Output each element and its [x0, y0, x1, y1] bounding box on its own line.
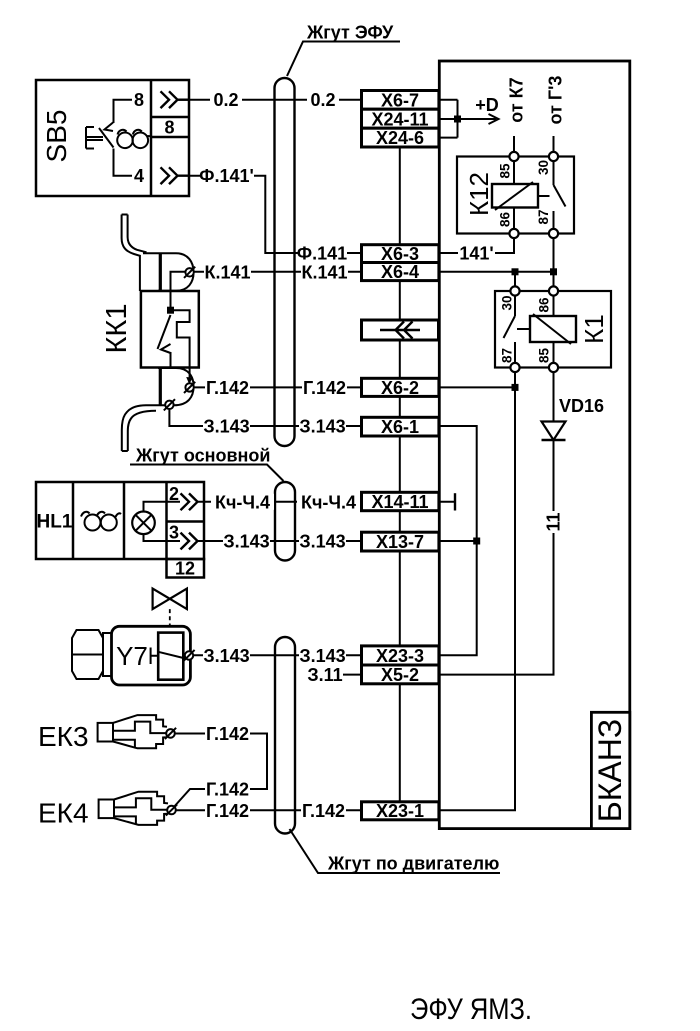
diode VD16: [542, 422, 566, 441]
svg-text:Х24-6: Х24-6: [376, 128, 424, 148]
svg-text:З.143: З.143: [223, 532, 269, 552]
label Г.142 (ЕК4 after harness): [301, 801, 346, 821]
label 0.2 (before harness): [210, 90, 242, 110]
valve dashed stem: [169, 609, 171, 627]
relay K1 box: [495, 291, 611, 368]
SB5 blade contact arrow: [105, 123, 114, 132]
K12 pin circle 30: [549, 152, 558, 161]
junction dot +D: [454, 116, 461, 123]
КК1 switch blade: [158, 315, 171, 349]
svg-text:30: 30: [500, 295, 515, 310]
K12 coil lead pin 85: [513, 160, 515, 184]
SB5 switch blade: [99, 128, 114, 148]
SB5 wire pin 8: [114, 100, 133, 123]
connector X13-7: [362, 532, 439, 552]
svg-text:8: 8: [134, 90, 144, 110]
КК1 upper terminal lug: [143, 253, 194, 290]
svg-text:от К7: от К7: [507, 77, 527, 122]
svg-text:0.2: 0.2: [310, 90, 335, 110]
arrow +D: [458, 114, 499, 124]
label З.11: [307, 665, 343, 685]
wire K1 pin 87 down through X6-2 row to X23-1: [438, 372, 515, 810]
svg-text:Х6-3: Х6-3: [381, 244, 419, 264]
label К.141 (after harness): [301, 262, 348, 282]
K1 contact pin 87 lead: [514, 342, 516, 363]
label З.143 (after harness): [299, 417, 346, 437]
wire Г.142 from ЕК4 to X23-1: [176, 809, 362, 811]
K1 coil lead pin 85: [553, 342, 555, 363]
svg-text:Г.142: Г.142: [206, 378, 249, 398]
Y7 solenoid valve body: [112, 626, 191, 685]
svg-text:3: 3: [169, 523, 179, 543]
SB5 chevron pin 4: [161, 167, 190, 184]
indicator HL1 box: [36, 482, 204, 559]
svg-text:Кч-Ч.4: Кч-Ч.4: [215, 492, 270, 512]
svg-text:К1: К1: [579, 314, 609, 344]
svg-text:Г.142: Г.142: [302, 801, 345, 821]
БКАНЗ name box: [591, 712, 629, 828]
wire stub З.11 to X5-2: [341, 674, 362, 676]
K1 pin circle 86: [549, 286, 558, 295]
Y7 armature tick: [151, 648, 159, 665]
svg-text:Х6-4: Х6-4: [381, 262, 419, 282]
K1 pin circle 85: [549, 363, 558, 372]
svg-text:Х24-11: Х24-11: [371, 110, 428, 130]
connector X6-1: [362, 417, 439, 437]
svg-text:87: 87: [536, 209, 551, 224]
wire Г.142 from ЕК3: [173, 734, 268, 809]
svg-text:К12: К12: [464, 172, 494, 216]
label З.143 (Y7 after harness): [299, 646, 346, 666]
wire X6-2 row: [439, 386, 515, 388]
КК1 lower mounting bracket: [122, 405, 161, 451]
svg-text:HL1: HL1: [37, 512, 73, 533]
svg-text:ЕК3: ЕК3: [38, 721, 89, 752]
svg-text:87: 87: [500, 348, 515, 363]
relay K12 box: [457, 157, 574, 234]
ЕК3 terminal bolt: [165, 728, 176, 739]
label Кч-Ч.4 (before harness): [211, 492, 274, 512]
label Г.142 (ЕК3-ЕК4 link): [205, 780, 250, 800]
svg-text:З.11: З.11: [307, 665, 342, 685]
svg-text:2: 2: [169, 484, 179, 504]
label Г.142 (before harness): [205, 378, 250, 398]
wire stub X24-6 right: [439, 137, 458, 139]
lead X6-4 to K1 pin 86: [553, 272, 555, 287]
КК1 lower terminal lug: [158, 368, 194, 405]
label З.143 (HL1 after harness): [299, 532, 346, 552]
label З.143 (before harness): [203, 417, 250, 437]
wire Кч-Ч.4 from HL1 to X14-11: [198, 501, 362, 503]
svg-text:Г.142: Г.142: [206, 780, 249, 800]
svg-text:Жгут ЭФУ: Жгут ЭФУ: [306, 23, 394, 43]
harness oval Жгут ЭФУ: [275, 78, 295, 446]
svg-text:Х13-7: Х13-7: [376, 532, 424, 552]
valve symbol above Y7: [153, 589, 187, 610]
vertical harness column line through connectors: [399, 147, 401, 802]
svg-text:Кч-Ч.4: Кч-Ч.4: [301, 492, 356, 512]
svg-text:Х14-11: Х14-11: [371, 492, 428, 512]
svg-text:З.143: З.143: [299, 532, 345, 552]
SB5 coil: [117, 130, 151, 148]
svg-text:К.141: К.141: [301, 262, 347, 282]
svg-text:0.2: 0.2: [213, 90, 238, 110]
Y7 coil: [158, 633, 186, 680]
label Г.142 (after harness): [302, 378, 347, 398]
svg-text:Ф.141: Ф.141: [297, 244, 347, 264]
svg-text:Х23-1: Х23-1: [376, 801, 424, 821]
SB5 wire pin 4: [114, 149, 133, 176]
label Ф.141: [297, 244, 347, 264]
wire bracket joining X6-7 X24-11 X24-6: [457, 100, 459, 138]
K1 pin circle 87: [510, 363, 519, 372]
wire 141' from X6-3 to K12 pin 86: [439, 238, 514, 253]
wire X6-1 to X23-3: [439, 426, 477, 655]
K12 contact pin 87 lead: [553, 211, 555, 230]
wire З.143 from HL1 to X13-7: [198, 540, 362, 542]
svg-text:БКАНЗ: БКАНЗ: [592, 719, 628, 822]
label З.143 (HL1 before harness): [223, 532, 270, 552]
КК1 heater arrowhead at terminal: [186, 377, 193, 384]
SB5 chevron pin 8: [161, 91, 190, 108]
leader line to Жгут по двигателю label: [290, 829, 501, 873]
svg-text:Жгут по двигателю: Жгут по двигателю: [327, 854, 499, 874]
glow plug ЕК4 body: [99, 792, 168, 825]
КК1 wire terminal to internal dot: [171, 272, 186, 310]
connector X24-6: [362, 128, 439, 148]
connector X5-2: [362, 665, 439, 685]
connector X23-3: [362, 646, 439, 666]
switch SB5 box: [36, 80, 189, 196]
svg-text:З.143: З.143: [203, 646, 249, 666]
svg-text:Х6-1: Х6-1: [381, 417, 419, 437]
K12 contact pin 30 lead: [553, 160, 555, 185]
svg-text:З.143: З.143: [299, 417, 345, 437]
leader line to Жгут ЭФУ label: [287, 42, 400, 77]
HL1 chevron pin 2: [181, 493, 198, 510]
relay K12 coil: [492, 182, 538, 210]
wire Ф.141' from SB5 pin 4: [189, 176, 362, 253]
svg-text:Г.142: Г.142: [206, 801, 249, 821]
svg-text:Г.142: Г.142: [206, 724, 249, 744]
connector X6-2: [362, 378, 439, 398]
label 0.2 (after harness): [307, 90, 339, 110]
wire K1 pin 85 to diode VD16: [553, 372, 555, 421]
ЕК4 terminal bolt: [166, 804, 177, 815]
HL1 chevron pin 3: [181, 533, 198, 550]
label К.141 (before harness): [204, 262, 251, 282]
wire 11 to X5-2 row: [439, 533, 554, 675]
КК1 fixed contact triangle: [161, 344, 171, 353]
HL1 lamp: [132, 512, 155, 535]
wire X6-4 row to relay K1: [439, 271, 554, 273]
K12 pin circle 85: [509, 152, 518, 161]
K12 armature link: [538, 195, 550, 197]
junction dot X6-2 row: [512, 384, 519, 391]
svg-text:VD16: VD16: [559, 396, 604, 416]
svg-text:Х5-2: Х5-2: [381, 665, 419, 685]
svg-text:ЭФУ ЯМЗ.: ЭФУ ЯМЗ.: [410, 993, 532, 1026]
svg-text:З.143: З.143: [203, 417, 249, 437]
svg-text:Х6-7: Х6-7: [381, 90, 419, 110]
svg-text:85: 85: [498, 163, 513, 179]
wire X13-7 stub right: [439, 540, 477, 542]
svg-text:Y7: Y7: [116, 641, 148, 671]
svg-text:Г.142: Г.142: [303, 378, 346, 398]
connector X23-1: [362, 801, 439, 821]
svg-text:З.143: З.143: [299, 646, 345, 666]
HL1 wire lamp to pin 2: [144, 502, 181, 512]
svg-text:+D: +D: [475, 95, 499, 115]
svg-text:Х23-3: Х23-3: [376, 646, 424, 666]
K12 pin circle 86: [509, 229, 518, 238]
svg-text:8: 8: [164, 118, 174, 138]
wire diode to 11 label: [553, 440, 555, 511]
svg-text:ЕК4: ЕК4: [38, 798, 89, 829]
harness oval Жгут по двигателю: [275, 637, 295, 834]
wire lead от Г'3 to K12 pin 30: [553, 136, 555, 152]
harness oval Жгут основной: [275, 482, 295, 561]
connector X6-7: [362, 90, 439, 110]
wire З.143 from Y7 to X23-3: [193, 654, 361, 656]
HL1 wire lamp to pin 3: [144, 534, 181, 541]
svg-text:86: 86: [498, 212, 513, 228]
svg-text:КК1: КК1: [101, 304, 133, 354]
K1 armature link: [517, 328, 530, 330]
K1 contact pin 30 lead: [514, 296, 516, 317]
wire X14-11 stub with terminator: [439, 493, 455, 510]
leader line to Жгут основной label: [130, 465, 284, 482]
svg-text:141': 141': [459, 244, 493, 264]
K12 pin circle 87: [549, 229, 558, 238]
lead X6-4 to K1 pin 30: [514, 272, 516, 287]
wire 0.2 from SB5 to X6-7: [178, 99, 362, 101]
КК1 internal junction dot: [167, 307, 174, 314]
svg-text:86: 86: [537, 297, 552, 313]
КК1 upper mounting bracket: [122, 215, 147, 292]
svg-text:Х6-2: Х6-2: [381, 378, 419, 398]
K1 pin circle 30: [510, 286, 519, 295]
Y7 hex fitting: [72, 630, 112, 679]
Y7 terminal bolt: [183, 650, 194, 661]
SB5 pushbutton actuator: [86, 127, 103, 149]
wire З.143 from КК1 to X6-1: [169, 409, 361, 426]
svg-text:11: 11: [544, 512, 564, 531]
label Ф.141': [199, 166, 254, 186]
КК1 lower terminal bolt Г.142: [184, 382, 195, 393]
svg-text:SB5: SB5: [41, 110, 72, 163]
label Г.142 (ЕК3): [205, 724, 250, 744]
КК1 heater meander: [171, 310, 190, 380]
connector X6-4: [362, 262, 439, 282]
svg-text:12: 12: [175, 559, 195, 579]
svg-text:от Г'3: от Г'3: [546, 76, 566, 125]
K1 contact blade: [504, 316, 516, 338]
label 141': [458, 244, 495, 264]
svg-text:85: 85: [537, 348, 552, 364]
relay K1 coil: [530, 314, 576, 344]
КК1 contact line to lower terminal: [170, 352, 172, 368]
svg-text:Ф.141': Ф.141': [199, 166, 254, 186]
HL1 pin 12 box: [167, 559, 205, 579]
КК1 body: [141, 291, 199, 368]
КК1 bracket terminal bolt З.143: [164, 399, 175, 410]
wire К.141 from КК1 to X6-4: [194, 271, 362, 273]
svg-text:30: 30: [536, 160, 551, 175]
K12 coil lead pin 86: [513, 208, 515, 231]
svg-text:Жгут основной: Жгут основной: [135, 446, 270, 466]
label Кч-Ч.4 (after harness): [297, 492, 360, 512]
junction dot X6-4/K1 pin30: [512, 268, 519, 275]
K12 contact blade: [554, 185, 566, 207]
wire K12 pin 87 down to X6-4 row: [553, 238, 555, 272]
connector X14-11: [362, 492, 439, 512]
wire Г.142 from КК1 to X6-2: [194, 386, 362, 388]
harness splice symbol box with left chevrons: [362, 320, 439, 340]
wire lead от К7 to K12 pin 85: [513, 136, 515, 152]
junction dot X13-7: [473, 538, 480, 545]
КК1 upper terminal bolt: [184, 267, 195, 278]
big block БКАНЗ outline: [439, 61, 630, 829]
label З.143 (Y7 before harness): [203, 646, 250, 666]
connector X6-3: [362, 244, 439, 264]
wire stub X24-11 right: [439, 118, 458, 120]
connector X24-11: [362, 109, 439, 129]
junction dot X6-4/K1 pin86: [550, 268, 557, 275]
wire stub X6-7 right: [439, 99, 458, 101]
svg-text:К.141: К.141: [204, 262, 250, 282]
glow plug ЕК3 body: [98, 715, 167, 748]
svg-text:4: 4: [134, 166, 144, 186]
label Г.142 (ЕК4 before harness): [205, 801, 250, 821]
HL1 coil: [81, 512, 121, 531]
K1 coil lead pin 86: [553, 296, 555, 317]
